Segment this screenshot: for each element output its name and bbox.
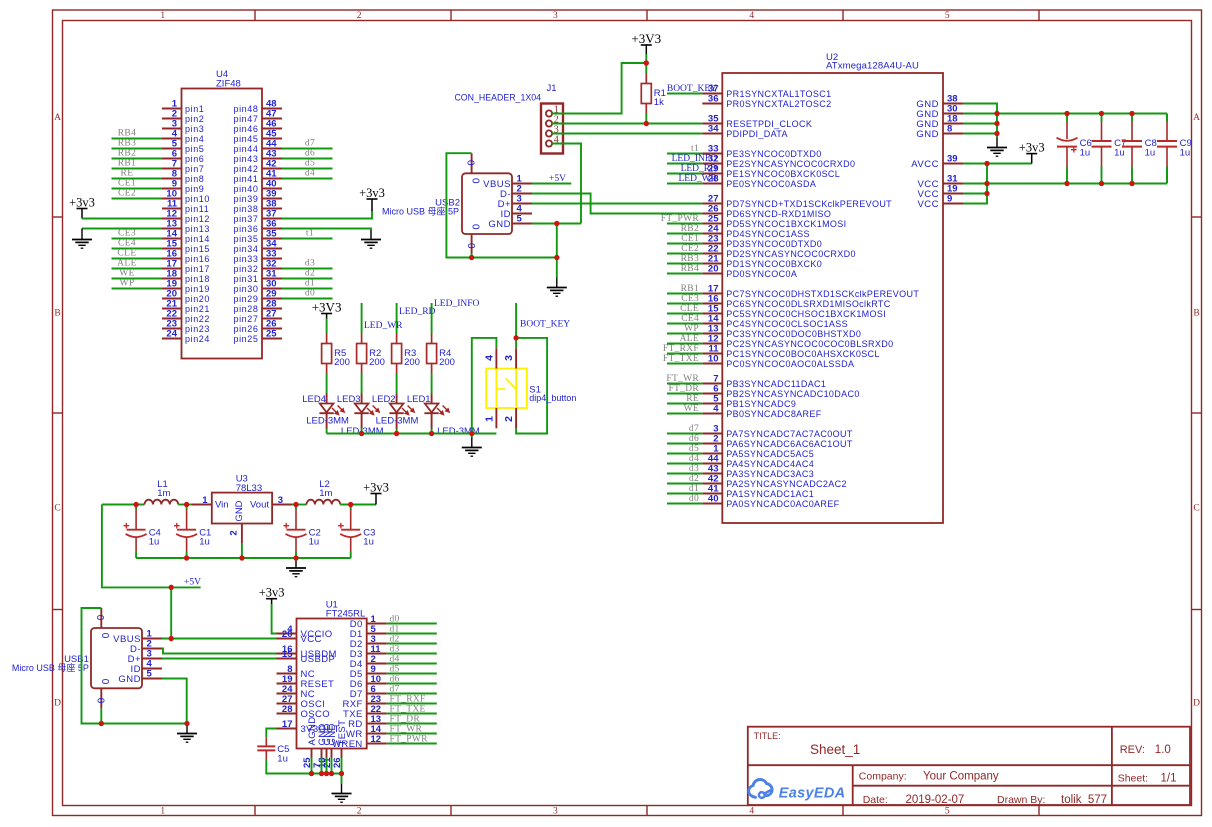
wire net d2 bbox=[282, 278, 333, 280]
svg-text:LED_WR: LED_WR bbox=[364, 321, 403, 331]
wire R5 to LED4 bbox=[326, 374, 328, 394]
title block frame bbox=[748, 727, 1190, 805]
wire LED1 cathode to bus bbox=[431, 429, 433, 434]
svg-text:FT_TXE: FT_TXE bbox=[663, 354, 699, 364]
junction U1 gnd bus bbox=[329, 771, 334, 776]
inductor L1 bbox=[145, 500, 179, 505]
svg-text:pin29: pin29 bbox=[233, 294, 258, 304]
svg-text:GND: GND bbox=[118, 674, 141, 685]
label U3 refdes 78L33 bbox=[236, 474, 262, 495]
wire R4 to LED1 bbox=[431, 374, 433, 394]
svg-text:PC3SYNCOC0DOC0BHSTXD0: PC3SYNCOC0DOC0BHSTXD0 bbox=[726, 329, 861, 339]
svg-text:d1: d1 bbox=[390, 625, 400, 635]
svg-text:RB4: RB4 bbox=[681, 264, 699, 274]
wire U4 pin36 to ground bbox=[282, 229, 371, 231]
svg-text:0: 0 bbox=[470, 224, 481, 230]
svg-text:d1: d1 bbox=[689, 484, 699, 494]
svg-text:BOOT_KEY: BOOT_KEY bbox=[667, 84, 717, 94]
junction +5V tap bbox=[169, 585, 174, 590]
svg-text:0: 0 bbox=[95, 698, 106, 704]
svg-text:1k: 1k bbox=[654, 97, 664, 108]
svg-text:d0: d0 bbox=[305, 288, 315, 298]
svg-text:ZIF48: ZIF48 bbox=[216, 79, 241, 90]
wire J1 pin3 to U2 pin34 bbox=[552, 133, 702, 135]
wire J1 pin1 up to +3V3 junction bbox=[552, 63, 646, 114]
wire R3 to LED2 bbox=[396, 374, 398, 394]
label C4 value 1u bbox=[149, 528, 161, 548]
svg-text:pin24: pin24 bbox=[185, 334, 210, 344]
svg-text:+3V3: +3V3 bbox=[312, 299, 342, 314]
svg-text:pin44: pin44 bbox=[233, 144, 258, 154]
svg-text:LED_INFO: LED_INFO bbox=[434, 299, 480, 309]
svg-text:D: D bbox=[1193, 699, 1200, 709]
svg-text:GND: GND bbox=[916, 129, 939, 140]
svg-text:3: 3 bbox=[503, 355, 515, 361]
svg-text:Vin: Vin bbox=[215, 500, 229, 511]
wire GND down bbox=[556, 224, 558, 258]
svg-text:CE4: CE4 bbox=[118, 238, 136, 248]
label C8 value 1u bbox=[1145, 138, 1157, 158]
svg-text:RE: RE bbox=[686, 394, 699, 404]
ground top right bbox=[987, 138, 1007, 157]
svg-text:2: 2 bbox=[357, 807, 362, 817]
svg-text:BOOT_KEY: BOOT_KEY bbox=[520, 320, 570, 330]
svg-text:pin8: pin8 bbox=[185, 174, 204, 184]
svg-text:t1: t1 bbox=[306, 228, 314, 238]
svg-text:Sheet:: Sheet: bbox=[1118, 773, 1148, 785]
label S1 refdes dip4_button bbox=[529, 385, 576, 404]
wire net FT_RXF at U2 bbox=[667, 353, 702, 355]
svg-text:5: 5 bbox=[147, 669, 153, 680]
svg-text:+3v3: +3v3 bbox=[363, 480, 389, 494]
svg-text:2: 2 bbox=[503, 416, 515, 422]
label U4 refdes ZIF48 bbox=[216, 69, 241, 90]
svg-text:1: 1 bbox=[202, 495, 208, 506]
wire USB1 D+ to U1 USBDP bbox=[162, 658, 277, 660]
svg-text:28: 28 bbox=[282, 704, 293, 715]
junction U1 gnd bus bbox=[319, 771, 324, 776]
svg-text:FT245RL: FT245RL bbox=[326, 608, 366, 619]
junction U1 gnd bus bbox=[309, 771, 314, 776]
svg-text:pin9: pin9 bbox=[185, 184, 204, 194]
svg-text:Vout: Vout bbox=[250, 500, 269, 511]
wire C9 branch right bbox=[1166, 114, 1168, 122]
junction U1 gnd bus bbox=[324, 771, 329, 776]
svg-text:tolik_577: tolik_577 bbox=[1061, 794, 1107, 806]
svg-text:PD4SYNCOC1ASS: PD4SYNCOC1ASS bbox=[726, 229, 810, 239]
wire +3V3 to R1 junction bbox=[645, 54, 647, 63]
wire net d0 bbox=[387, 623, 437, 625]
svg-text:5: 5 bbox=[945, 11, 950, 21]
junction VBUS +5V bbox=[169, 636, 174, 641]
svg-text:5: 5 bbox=[945, 807, 950, 817]
svg-text:pin4: pin4 bbox=[185, 134, 204, 144]
svg-text:d5: d5 bbox=[689, 444, 699, 454]
wire LED4 cathode to bus bbox=[326, 429, 328, 434]
wire net RB1 at U2 bbox=[667, 293, 702, 295]
label U2 refdes ATxmega128A4U-AU bbox=[826, 52, 919, 72]
svg-text:PD5SYNCOC1BXCK1MOSI: PD5SYNCOC1BXCK1MOSI bbox=[726, 219, 846, 229]
wire net RB2 bbox=[112, 158, 163, 160]
wire net CE1 at U2 bbox=[667, 243, 702, 245]
wire +3v3 to pin12 bbox=[82, 218, 162, 220]
power flag +3v3 at U4 pin12 bbox=[69, 195, 95, 218]
wire net d2 bbox=[387, 643, 437, 645]
svg-text:PC1SYNCOC0BOC0AHSXCK0SCL: PC1SYNCOC0BOC0AHSXCK0SCL bbox=[726, 349, 879, 359]
capacitor C2 polarized bbox=[283, 505, 306, 559]
junction VCC bbox=[984, 191, 989, 196]
label C3 value 1u bbox=[363, 528, 375, 548]
wire +5V rail top left bbox=[102, 504, 145, 506]
svg-text:FT_DR: FT_DR bbox=[390, 715, 421, 725]
svg-text:1/1: 1/1 bbox=[1161, 773, 1177, 785]
U1 left pins with numbers and names bbox=[277, 624, 340, 735]
svg-text:CE4: CE4 bbox=[681, 314, 699, 324]
junction C2 top bbox=[293, 502, 298, 507]
svg-text:pin38: pin38 bbox=[233, 204, 258, 214]
U3 pin numbers bbox=[202, 495, 283, 536]
svg-text:PA6SYNCADC6AC6AC1OUT: PA6SYNCADC6AC6AC1OUT bbox=[726, 439, 853, 449]
svg-text:RE: RE bbox=[121, 168, 134, 178]
wire +3V3 to R5 bbox=[326, 319, 328, 334]
wire net d7 bbox=[282, 148, 333, 150]
svg-text:+3v3: +3v3 bbox=[69, 195, 95, 209]
wire net CE1 bbox=[112, 188, 163, 190]
wire net d0 at U2 bbox=[667, 503, 702, 505]
svg-text:pin42: pin42 bbox=[233, 164, 258, 174]
svg-text:VCC: VCC bbox=[301, 634, 322, 645]
wire USB2 D+ to U2 PD7 bbox=[532, 203, 702, 205]
svg-text:pin12: pin12 bbox=[185, 214, 210, 224]
svg-text:1u: 1u bbox=[1145, 148, 1156, 159]
svg-text:pin23: pin23 bbox=[185, 324, 210, 334]
USB2 shell pins 0 bbox=[465, 153, 481, 254]
U3 pin names Vin Vout GND bbox=[215, 500, 269, 522]
svg-text:LED4: LED4 bbox=[302, 394, 326, 405]
IC U1 body bbox=[297, 619, 367, 749]
U4 left pins 1-24 with numbers and names bbox=[162, 99, 210, 344]
svg-text:pin48: pin48 bbox=[233, 104, 258, 114]
svg-text:0: 0 bbox=[470, 178, 481, 184]
junction LED bus ground tap bbox=[469, 431, 474, 436]
label R1 value bbox=[654, 88, 666, 108]
svg-text:pin43: pin43 bbox=[233, 154, 258, 164]
wire power bottom bus bbox=[136, 557, 351, 559]
svg-text:LED_RD: LED_RD bbox=[399, 307, 436, 317]
wire net d6 bbox=[282, 158, 333, 160]
svg-text:1m: 1m bbox=[319, 488, 332, 499]
LED LED2 bbox=[389, 394, 415, 429]
svg-text:pin19: pin19 bbox=[185, 284, 210, 294]
svg-text:PE2SYNCASYNCOC0CRXD0: PE2SYNCASYNCOC0CRXD0 bbox=[726, 159, 855, 169]
svg-text:+5V: +5V bbox=[549, 174, 566, 184]
LED LED4 bbox=[319, 394, 345, 429]
resistor R3 bbox=[392, 334, 402, 374]
resistor R1 bbox=[645, 63, 647, 74]
svg-text:d3: d3 bbox=[689, 464, 699, 474]
svg-text:d7: d7 bbox=[689, 424, 699, 434]
svg-text:pin37: pin37 bbox=[233, 214, 258, 224]
resistor R5 bbox=[322, 334, 332, 374]
svg-text:RB1: RB1 bbox=[118, 158, 137, 168]
wire net vertical at R3 bbox=[396, 303, 398, 334]
svg-text:ALE: ALE bbox=[117, 258, 137, 268]
junction AVCC bbox=[984, 161, 989, 166]
wire net d1 at U2 bbox=[667, 493, 702, 495]
power flag +3V3 LED rail bbox=[312, 299, 342, 318]
wire net CE2 bbox=[112, 198, 163, 200]
svg-text:B: B bbox=[54, 308, 60, 318]
svg-text:ALE: ALE bbox=[680, 334, 699, 344]
svg-text:pin10: pin10 bbox=[185, 194, 210, 204]
junction LED bus bbox=[394, 431, 399, 436]
label C1 value 1u bbox=[199, 528, 211, 548]
wire net d5 bbox=[387, 673, 437, 675]
svg-text:39: 39 bbox=[947, 154, 958, 165]
junction LED bus bbox=[429, 431, 434, 436]
wire net ALE at U2 bbox=[667, 343, 702, 345]
svg-text:PA7SYNCADC7AC7AC0OUT: PA7SYNCADC7AC7AC0OUT bbox=[726, 429, 853, 439]
svg-text:+5V: +5V bbox=[184, 578, 201, 588]
svg-text:pin17: pin17 bbox=[185, 264, 210, 274]
capacitor C8 bbox=[1122, 114, 1142, 184]
wire U1 3V3OUT to C5 bbox=[266, 729, 276, 738]
power flag +3v3 at AVCC bbox=[1019, 140, 1045, 163]
wire USB2 VBUS +5V bbox=[532, 183, 571, 185]
power flag +3V3 top bbox=[631, 31, 661, 54]
wire net RB4 at U2 bbox=[667, 273, 702, 275]
wire net d3 at U2 bbox=[667, 473, 702, 475]
IC U2 body bbox=[722, 73, 943, 523]
wire net RB3 bbox=[112, 148, 163, 150]
svg-text:LED_WR: LED_WR bbox=[678, 174, 717, 184]
wire net d7 at U2 bbox=[667, 433, 702, 435]
wire bus to ground bbox=[341, 774, 343, 785]
wire shell stub bottom bbox=[100, 708, 102, 723]
wire J1 pin4 down to GND net bbox=[552, 144, 581, 224]
svg-text:PA3SYNCADC3AC3: PA3SYNCADC3AC3 bbox=[726, 469, 814, 479]
svg-text:Your Company: Your Company bbox=[923, 771, 999, 783]
wire net RE bbox=[112, 178, 163, 180]
IC U3 body bbox=[212, 493, 272, 524]
svg-text:d4: d4 bbox=[689, 454, 699, 464]
svg-text:LED2: LED2 bbox=[372, 394, 396, 405]
junction GND rail bbox=[994, 131, 999, 136]
wire USB1 VBUS to U1 VCC bbox=[162, 638, 277, 640]
junction USB1 gnd bbox=[184, 721, 189, 726]
svg-text:PR1SYNCXTAL1TOSC1: PR1SYNCXTAL1TOSC1 bbox=[726, 89, 831, 99]
svg-text:PD1SYNCOC0BXCK0: PD1SYNCOC0BXCK0 bbox=[726, 259, 822, 269]
junction C1 top bbox=[184, 502, 189, 507]
wire USB2 D- to U2 PD6 bbox=[532, 194, 702, 214]
U2 left pins with numbers and names bbox=[702, 84, 919, 509]
svg-text:pin33: pin33 bbox=[233, 254, 258, 264]
wire net FT_PWR bbox=[387, 743, 437, 745]
junction GND net bbox=[554, 221, 559, 226]
svg-text:PA5SYNCADC5AC5: PA5SYNCADC5AC5 bbox=[726, 449, 814, 459]
svg-text:PC2SYNCASYNCOC0COC0BLSRXD0: PC2SYNCASYNCOC0COC0BLSRXD0 bbox=[726, 339, 893, 349]
power flag +3v3 right of U4 bbox=[359, 186, 385, 211]
junction GND rail bbox=[994, 111, 999, 116]
wire net d7 bbox=[387, 693, 437, 695]
svg-text:4: 4 bbox=[749, 807, 754, 817]
svg-text:J1: J1 bbox=[546, 83, 556, 94]
svg-text:FT_TXE: FT_TXE bbox=[390, 705, 426, 715]
junction LED bus bbox=[359, 431, 364, 436]
svg-text:Micro USB 母座 5P: Micro USB 母座 5P bbox=[382, 206, 459, 217]
svg-text:LED3: LED3 bbox=[337, 394, 361, 405]
wire LED2 cathode to bus bbox=[396, 429, 398, 434]
U1 bottom pins with rotated numbers and names bbox=[302, 716, 348, 768]
ground below USB2 bbox=[547, 278, 567, 297]
svg-text:1u: 1u bbox=[1080, 148, 1091, 159]
svg-text:USBDP: USBDP bbox=[301, 654, 336, 665]
wire net d3 bbox=[387, 653, 437, 655]
svg-text:8: 8 bbox=[947, 124, 952, 135]
svg-text:pin47: pin47 bbox=[233, 114, 258, 124]
svg-text:CLE: CLE bbox=[680, 304, 699, 314]
wire U2 pin8 GND bbox=[963, 133, 997, 135]
wire net d1 bbox=[387, 633, 437, 635]
svg-text:pin3: pin3 bbox=[185, 124, 204, 134]
svg-text:3: 3 bbox=[278, 495, 283, 506]
svg-text:pin1: pin1 bbox=[185, 104, 204, 114]
svg-text:34: 34 bbox=[708, 124, 719, 135]
svg-text:ATxmega128A4U-AU: ATxmega128A4U-AU bbox=[826, 61, 919, 72]
wire net FT_WR at U2 bbox=[667, 383, 702, 385]
svg-text:WE: WE bbox=[119, 268, 135, 278]
wire net t1 at U2 bbox=[667, 153, 702, 155]
ground right of U4 bbox=[361, 230, 381, 248]
label R2 value bbox=[369, 348, 385, 368]
svg-text:5: 5 bbox=[517, 214, 523, 225]
svg-text:FT_WR: FT_WR bbox=[390, 725, 423, 735]
junction C3 top bbox=[348, 502, 353, 507]
svg-text:GND: GND bbox=[488, 219, 511, 230]
wire net FT_WR bbox=[387, 733, 437, 735]
svg-text:0: 0 bbox=[94, 615, 105, 621]
svg-text:pin5: pin5 bbox=[185, 144, 204, 154]
junction lower GND bus bbox=[554, 255, 559, 260]
svg-text:200: 200 bbox=[439, 357, 455, 368]
svg-text:1u: 1u bbox=[199, 537, 210, 548]
svg-text:d4: d4 bbox=[305, 168, 315, 178]
svg-text:PB0SYNCADC8AREF: PB0SYNCADC8AREF bbox=[726, 409, 821, 419]
J1 pin numbers 1-4 bbox=[554, 105, 559, 146]
wire U2 pin18 GND bbox=[963, 123, 997, 125]
U4 right pins 48-25 with numbers and names bbox=[233, 99, 282, 344]
svg-text:PD7SYNCD+TXD1SCKclkPEREVOUT: PD7SYNCD+TXD1SCKclkPEREVOUT bbox=[726, 199, 892, 209]
svg-text:Sheet_1: Sheet_1 bbox=[810, 742, 860, 757]
svg-text:t1: t1 bbox=[691, 144, 699, 154]
svg-text:CON_HEADER_1X04: CON_HEADER_1X04 bbox=[454, 93, 541, 103]
svg-text:d3: d3 bbox=[305, 258, 315, 268]
svg-text:FT_RXF: FT_RXF bbox=[663, 344, 699, 354]
svg-text:pin2: pin2 bbox=[185, 114, 204, 124]
wire net FT_RXF bbox=[387, 703, 437, 705]
wire net FT_DR bbox=[387, 723, 437, 725]
wire C5 to GND bus bbox=[266, 760, 341, 774]
svg-text:0: 0 bbox=[465, 160, 476, 166]
junction shell bbox=[469, 255, 474, 260]
wire R1 bottom to junction bbox=[645, 114, 647, 124]
svg-text:FT_PWR: FT_PWR bbox=[390, 735, 429, 745]
LED LED1 bbox=[424, 394, 450, 429]
junction dots overlay bbox=[99, 60, 1135, 776]
wire U4 pin37 to +3v3 bbox=[282, 211, 372, 219]
wire net FT_PWR at U2 bbox=[667, 223, 702, 225]
svg-text:CE2: CE2 bbox=[118, 188, 136, 198]
U2 right pins with numbers and names bbox=[911, 94, 963, 210]
svg-text:PB3SYNCADC11DAC1: PB3SYNCADC11DAC1 bbox=[726, 379, 826, 389]
svg-text:1u: 1u bbox=[1114, 148, 1125, 159]
wire net d0 bbox=[282, 298, 333, 300]
svg-text:AVCC: AVCC bbox=[911, 159, 939, 170]
label U1 refdes FT245RL bbox=[326, 600, 366, 620]
svg-text:1: 1 bbox=[483, 416, 495, 422]
svg-text:FT_RXF: FT_RXF bbox=[390, 695, 426, 705]
wire U3 GND down bbox=[241, 543, 243, 558]
junction U1 gnd bus bbox=[339, 771, 344, 776]
title block texts bbox=[754, 731, 1177, 806]
label L1 value 1m bbox=[157, 479, 170, 499]
svg-text:pin31: pin31 bbox=[233, 274, 258, 284]
wire net ALE bbox=[112, 268, 163, 270]
svg-text:Date:: Date: bbox=[863, 794, 888, 806]
LED LED3 bbox=[354, 394, 380, 429]
svg-text:200: 200 bbox=[369, 357, 385, 368]
svg-text:pin30: pin30 bbox=[233, 284, 258, 294]
U1 right pins with numbers and names bbox=[332, 614, 387, 750]
svg-text:FT_WR: FT_WR bbox=[666, 374, 699, 384]
svg-text:d2: d2 bbox=[390, 635, 400, 645]
wire net d4 bbox=[387, 663, 437, 665]
wire net CLE at U2 bbox=[667, 313, 702, 315]
svg-text:pin20: pin20 bbox=[185, 294, 210, 304]
junction U3 GND bbox=[239, 555, 244, 560]
svg-text:PD3SYNCOC0DTXD0: PD3SYNCOC0DTXD0 bbox=[726, 239, 822, 249]
wire S1 pin4 loop bbox=[472, 338, 497, 434]
capacitor C6 polarized bbox=[1057, 114, 1078, 184]
wire U2 pin38 GND bbox=[963, 104, 997, 138]
svg-text:PA1SYNCADC1AC1: PA1SYNCADC1AC1 bbox=[726, 489, 814, 499]
label C5 value 1u bbox=[277, 744, 289, 765]
svg-text:Drawn By:: Drawn By: bbox=[997, 794, 1045, 806]
connector USB2 body bbox=[462, 173, 512, 234]
wire net d6 at U2 bbox=[667, 443, 702, 445]
svg-text:pin13: pin13 bbox=[185, 224, 210, 234]
svg-text:CLE: CLE bbox=[117, 248, 136, 258]
svg-text:0: 0 bbox=[99, 633, 110, 639]
wire to ground below USB2 bbox=[556, 258, 558, 278]
wire R2 to LED3 bbox=[361, 374, 363, 394]
wire LED3 cathode to bus bbox=[361, 429, 363, 434]
svg-text:WP: WP bbox=[684, 324, 699, 334]
USB1 labels refdes and name bbox=[12, 654, 89, 673]
svg-text:1u: 1u bbox=[277, 754, 288, 765]
svg-text:2019-02-07: 2019-02-07 bbox=[906, 794, 965, 806]
connector J1 body bbox=[541, 104, 563, 154]
capacitor C5 bbox=[257, 737, 275, 760]
wire U2 pin39 AVCC to +3v3 bbox=[963, 163, 1032, 165]
svg-text:WE: WE bbox=[684, 404, 699, 414]
svg-text:d1: d1 bbox=[305, 278, 315, 288]
svg-text:PC4SYNCOC0CLSOC1ASS: PC4SYNCOC0CLSOC1ASS bbox=[726, 319, 848, 329]
svg-text:FT_DR: FT_DR bbox=[668, 384, 699, 394]
svg-text:1u: 1u bbox=[309, 537, 320, 548]
junction cap bottom bbox=[1099, 181, 1104, 186]
frame column labels bbox=[160, 11, 949, 817]
